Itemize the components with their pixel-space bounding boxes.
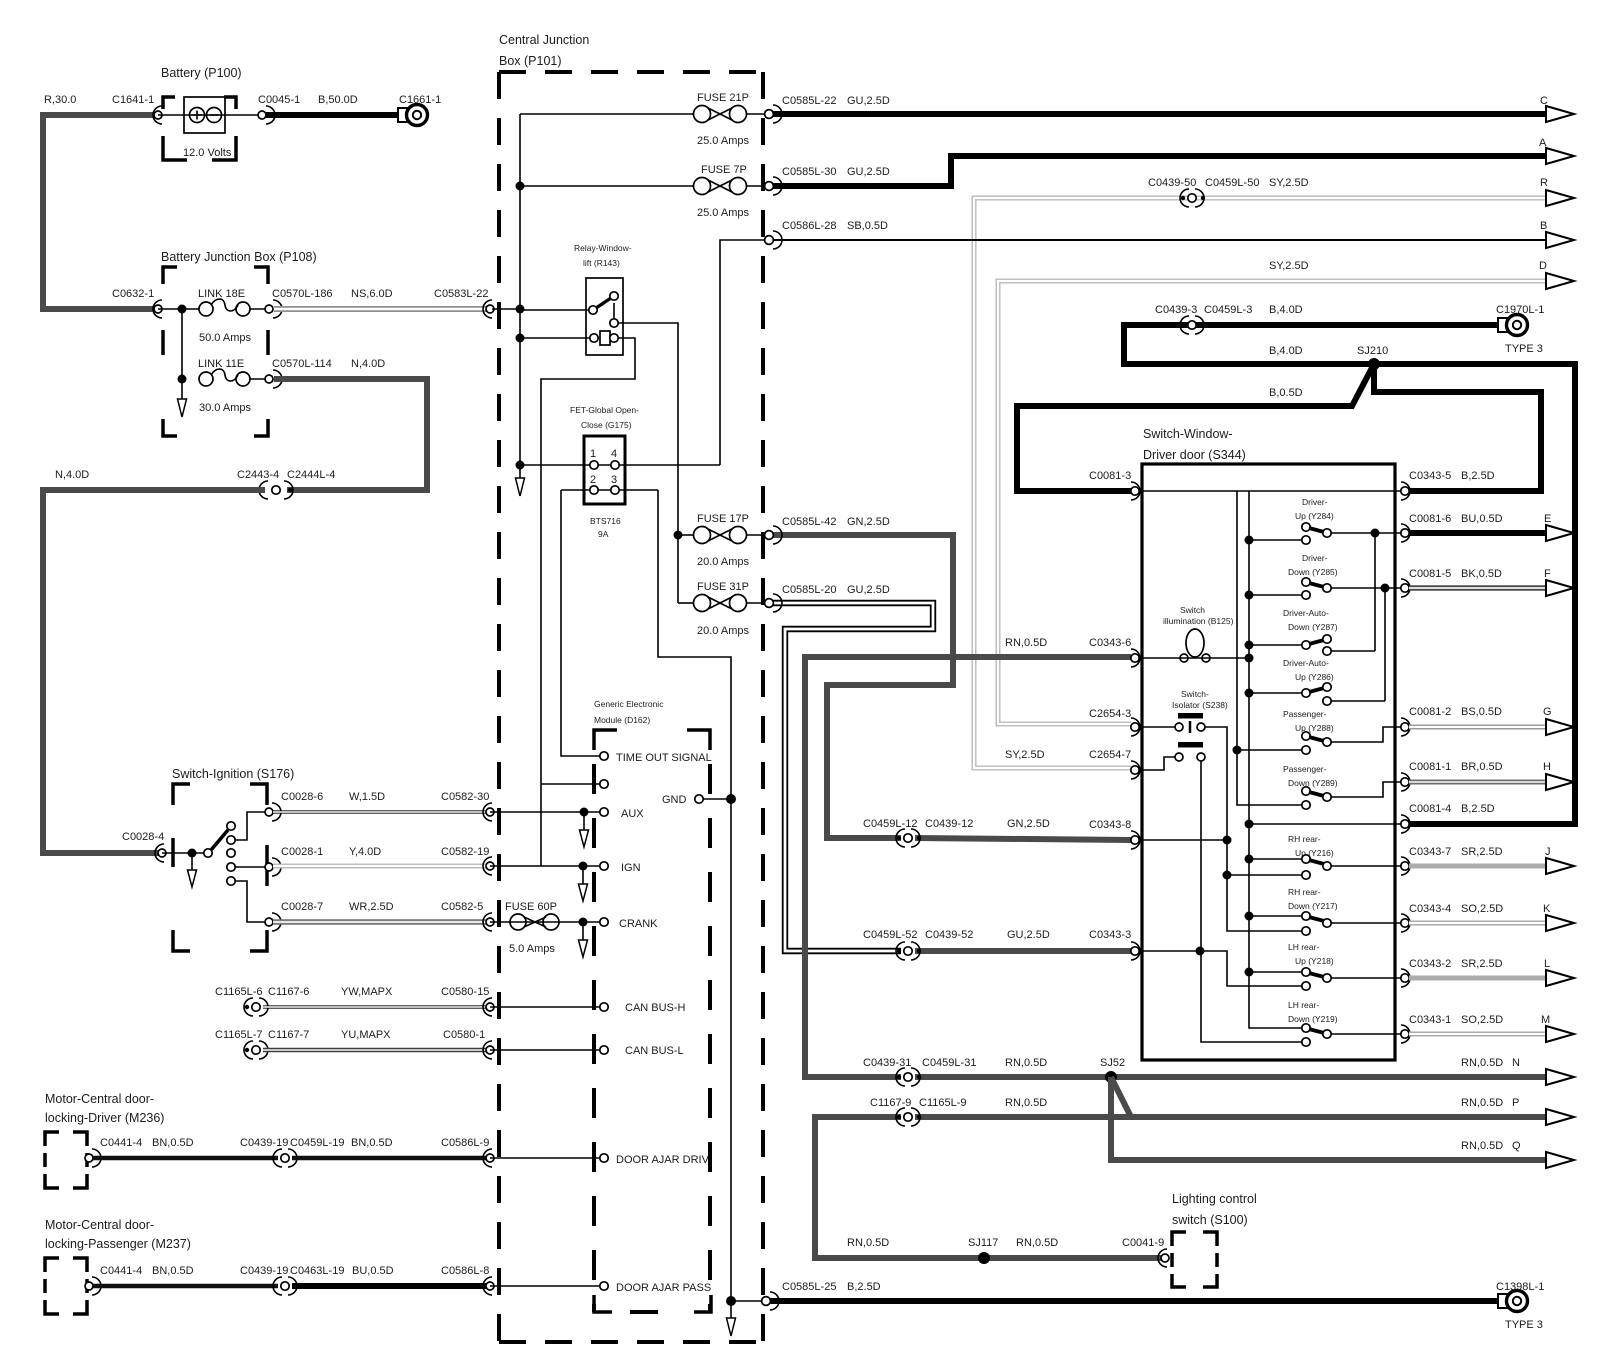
svg-text:C2654-3: C2654-3 — [1089, 708, 1131, 720]
CJB dashed border top — [499, 70, 763, 74]
svg-text:C0580-15: C0580-15 — [441, 986, 489, 998]
svg-text:BK,0.5D: BK,0.5D — [1461, 568, 1502, 580]
wire GN,2.5D fuse17P route — [770, 535, 953, 838]
wire inner bus mid — [1237, 491, 1302, 805]
wire Y216 output — [1331, 865, 1405, 867]
wire switch feed — [162, 852, 208, 854]
wire to fuse 31P — [678, 602, 693, 604]
node Y217 upper feed — [1245, 912, 1254, 921]
svg-text:M: M — [1541, 1014, 1550, 1026]
svg-text:Battery (P100): Battery (P100) — [161, 66, 242, 80]
wire relay output to fuses — [618, 323, 678, 603]
svg-text:C0459L-3: C0459L-3 — [1204, 304, 1252, 316]
connector C0081-4 — [1401, 815, 1410, 833]
svg-text:C0459L-31: C0459L-31 — [922, 1057, 976, 1069]
wire B SB,0.5D — [769, 239, 1545, 241]
svg-text:C0081-4: C0081-4 — [1409, 803, 1451, 815]
svg-text:C0586L-9: C0586L-9 — [441, 1137, 489, 1149]
svg-text:RN,0.5D: RN,0.5D — [847, 1237, 889, 1249]
svg-text:4: 4 — [611, 448, 617, 460]
FET G175 box — [584, 436, 625, 504]
svg-text:RN,0.5D: RN,0.5D — [1005, 1097, 1047, 1109]
connector C0441-4 — [92, 1149, 101, 1167]
svg-text:C2444L-4: C2444L-4 — [287, 469, 335, 481]
wire B,2.5D bottom — [770, 1298, 1499, 1304]
svg-text:Switch: Switch — [1180, 605, 1205, 615]
wire FET pin3 to GND rail — [658, 490, 731, 799]
svg-text:C0439-19: C0439-19 — [240, 1265, 288, 1277]
connector C0439-19 C0459L-19 — [273, 1149, 297, 1167]
FET pin 1 — [590, 461, 598, 469]
svg-text:Passenger-: Passenger- — [1283, 709, 1327, 719]
connector C2654-7 — [1131, 761, 1140, 779]
node bus NS input — [516, 305, 525, 314]
ring terminal C1398L-1 — [1498, 1294, 1507, 1308]
wire Y216 upper feed — [1249, 858, 1302, 860]
node bus relay coil — [516, 334, 525, 343]
connector C0028-1 — [272, 858, 281, 876]
svg-text:SY,2.5D: SY,2.5D — [1005, 749, 1045, 761]
pin CAN BUS-H — [600, 1003, 608, 1011]
wire R,30.0 battery to BJB — [43, 115, 160, 309]
svg-text:GU,2.5D: GU,2.5D — [847, 95, 890, 107]
wire P RN,0.5D — [1111, 1077, 1545, 1117]
svg-text:N,4.0D: N,4.0D — [55, 469, 89, 481]
svg-text:TYPE 3: TYPE 3 — [1505, 1319, 1543, 1331]
node Y287 feed — [1245, 641, 1254, 650]
arrow C — [1546, 106, 1574, 122]
svg-text:D: D — [1539, 260, 1547, 272]
wire Y284 feed — [1249, 539, 1302, 541]
svg-text:RN,0.5D: RN,0.5D — [1005, 637, 1047, 649]
svg-text:Driver-: Driver- — [1302, 553, 1328, 563]
svg-text:C0028-1: C0028-1 — [281, 846, 323, 858]
svg-text:Up (Y288): Up (Y288) — [1295, 723, 1334, 733]
node bus fuse7P — [516, 182, 525, 191]
wire FET pin2 to TIME OUT SIGNAL — [561, 490, 600, 756]
wire FET pins 2-3 row — [561, 489, 658, 491]
wire H BR,0.5D — [1409, 780, 1545, 785]
wire door ajar pass into module — [490, 1285, 600, 1287]
svg-text:switch (S100): switch (S100) — [1172, 1213, 1248, 1227]
svg-text:YW,MAPX: YW,MAPX — [341, 986, 393, 998]
svg-text:C0081-2: C0081-2 — [1409, 706, 1451, 718]
connector C0045-1 — [266, 106, 275, 124]
svg-text:C0343-7: C0343-7 — [1409, 846, 1451, 858]
svg-text:Isolator (S238): Isolator (S238) — [1172, 700, 1228, 710]
connector C2443-4 C2444L-4 — [259, 481, 293, 499]
svg-text:P: P — [1512, 1097, 1519, 1109]
arrow L — [1546, 970, 1574, 986]
svg-text:Driver-Auto-: Driver-Auto- — [1283, 608, 1329, 618]
svg-text:C2654-7: C2654-7 — [1089, 749, 1131, 761]
wire Y,4.0D — [273, 864, 488, 869]
svg-text:C0583L-22: C0583L-22 — [434, 288, 488, 300]
connector C0582-5 — [483, 913, 492, 931]
svg-text:C0586L-28: C0586L-28 — [782, 220, 836, 232]
svg-text:C0439-50: C0439-50 — [1148, 177, 1196, 189]
svg-text:F: F — [1544, 568, 1551, 580]
svg-text:Battery Junction Box (P108): Battery Junction Box (P108) — [161, 250, 317, 264]
svg-text:N: N — [1512, 1057, 1520, 1069]
svg-text:H: H — [1543, 761, 1551, 773]
to-other-circuits arrow CRANK — [582, 922, 584, 940]
connector C1165L-6 C1167-6 — [245, 1005, 249, 1009]
svg-text:TYPE 3: TYPE 3 — [1505, 343, 1543, 355]
wire to fuse 60P — [490, 921, 600, 923]
connector C0441-4 M237 — [92, 1277, 101, 1295]
svg-text:R: R — [1540, 177, 1548, 189]
node fuse17P tap — [674, 531, 683, 540]
svg-text:20.0 Amps: 20.0 Amps — [697, 556, 749, 568]
svg-text:Driver-Auto-: Driver-Auto- — [1283, 658, 1329, 668]
svg-text:BN,0.5D: BN,0.5D — [152, 1137, 194, 1149]
svg-text:FUSE 21P: FUSE 21P — [697, 92, 749, 104]
motor M236 box — [45, 1132, 87, 1188]
wire GU,2.5D fuse31P route — [770, 603, 933, 951]
svg-text:FUSE 60P: FUSE 60P — [505, 901, 557, 913]
connector C0580-15 — [483, 998, 492, 1016]
connector C0583L-22 — [483, 300, 492, 318]
svg-text:W,1.5D: W,1.5D — [349, 791, 385, 803]
wire A GU,2.5D — [769, 156, 1545, 186]
wire RH rear up lower feed — [1227, 874, 1302, 876]
svg-text:C0028-7: C0028-7 — [281, 901, 323, 913]
fuse FUSE 17P — [694, 527, 711, 544]
connector C0343-2 — [1401, 969, 1410, 987]
svg-text:C1398L-1: C1398L-1 — [1496, 1281, 1544, 1293]
svg-text:Motor-Central door-: Motor-Central door- — [45, 1092, 154, 1106]
wire GND rail down — [730, 799, 732, 1301]
svg-text:C0343-4: C0343-4 — [1409, 903, 1451, 915]
node link 11E junction — [178, 375, 187, 384]
wire C0081-4 internal — [1249, 823, 1405, 825]
connector C0028-7 — [272, 913, 281, 931]
svg-text:B,0.5D: B,0.5D — [1269, 387, 1303, 399]
wire Y217 upper feed — [1249, 915, 1302, 917]
svg-text:C0439-52: C0439-52 — [925, 929, 973, 941]
wire CJB feed bus — [519, 114, 521, 478]
wire bus to fuse 7P — [520, 185, 693, 187]
connector C0343-3 — [1131, 942, 1140, 960]
wire WR,2.5D — [273, 919, 488, 924]
wire Y285 feed — [1249, 594, 1302, 596]
wire Y218 lower feed — [1200, 951, 1302, 986]
connector C0582-19 — [483, 857, 492, 875]
svg-text:C0045-1: C0045-1 — [258, 94, 300, 106]
svg-text:C1167-9: C1167-9 — [870, 1097, 911, 1109]
svg-text:SY,2.5D: SY,2.5D — [1269, 177, 1309, 189]
connector C0459L-12 C0439-12 — [897, 836, 901, 840]
svg-text:C0041-9: C0041-9 — [1122, 1237, 1164, 1249]
svg-text:C1167-6: C1167-6 — [268, 986, 309, 998]
svg-text:C0585L-42: C0585L-42 — [782, 516, 836, 528]
wire unnamed pin to IGN net — [541, 783, 600, 785]
svg-text:C0028-4: C0028-4 — [122, 831, 164, 843]
connector C0439-19 C0463L-19 — [273, 1277, 297, 1295]
wire BN,0.5D M237 — [93, 1284, 278, 1289]
svg-text:SJ117: SJ117 — [968, 1237, 998, 1249]
svg-text:Motor-Central door-: Motor-Central door- — [45, 1218, 154, 1232]
wire L SR,2.5D — [1409, 976, 1545, 981]
wire to C0570L-186 — [250, 308, 269, 310]
wire SJ210 branch to C0343-5 — [1374, 364, 1541, 491]
svg-text:NS,6.0D: NS,6.0D — [351, 288, 393, 300]
wire Y284 output — [1331, 532, 1405, 534]
arrow E — [1546, 525, 1574, 541]
svg-text:G: G — [1543, 706, 1552, 718]
lighting switch S100 box — [1172, 1232, 1217, 1287]
connector C0343-5 — [1401, 482, 1410, 500]
svg-text:C0570L-114: C0570L-114 — [272, 358, 332, 370]
node GND rail bottom — [726, 1296, 736, 1306]
svg-text:C2443-4: C2443-4 — [237, 469, 279, 481]
node junction at link 18E — [178, 305, 187, 314]
connector C0570L-186 — [273, 300, 282, 318]
svg-text:C0028-6: C0028-6 — [281, 791, 323, 803]
wire B,0.5D SJ210 diagonal — [1017, 364, 1374, 491]
svg-text:RN,0.5D: RN,0.5D — [1016, 1237, 1058, 1249]
node GND rail — [726, 794, 736, 804]
wire Y288 output — [1331, 727, 1405, 742]
svg-text:C0081-1: C0081-1 — [1409, 761, 1451, 773]
connector C0343-7 — [1401, 857, 1410, 875]
connector C0585L-20 — [773, 594, 782, 612]
arrow K — [1546, 915, 1574, 931]
svg-text:WR,2.5D: WR,2.5D — [349, 901, 394, 913]
wire Y287 output — [1331, 650, 1375, 652]
D162 dashed border bottom — [594, 1295, 711, 1312]
connector C0028-4 — [155, 844, 164, 862]
to-other-circuits arrow AUX — [583, 812, 585, 830]
svg-text:C0459L-19: C0459L-19 — [290, 1137, 344, 1149]
fusible link LINK 18E — [199, 302, 213, 316]
to-other-circuits arrow bottom rail — [730, 1301, 732, 1318]
connector C2654-3 — [1131, 718, 1140, 736]
svg-text:C0585L-25: C0585L-25 — [782, 1281, 836, 1293]
arrow M — [1546, 1026, 1574, 1042]
svg-text:E: E — [1544, 513, 1551, 525]
arrow Q — [1546, 1152, 1574, 1168]
wire rail to C0585L-25 — [731, 1300, 762, 1302]
svg-text:B,4.0D: B,4.0D — [1269, 345, 1303, 357]
svg-text:12.0 Volts: 12.0 Volts — [183, 147, 232, 159]
svg-text:CAN BUS-H: CAN BUS-H — [625, 1002, 686, 1014]
connector C0439-3 C0459L-3 — [1181, 323, 1185, 327]
svg-text:LH rear-: LH rear- — [1288, 942, 1319, 952]
svg-text:Y,4.0D: Y,4.0D — [349, 846, 381, 858]
pin CAN BUS-L — [600, 1046, 608, 1054]
pin IGN — [600, 862, 608, 870]
wire RN,0.5D to lighting switch — [977, 1255, 1163, 1261]
svg-text:DOOR AJAR DRIV: DOOR AJAR DRIV — [616, 1154, 710, 1166]
node SJ117 — [978, 1252, 990, 1264]
wire contact to C0028-7 — [235, 881, 268, 922]
svg-text:25.0 Amps: 25.0 Amps — [697, 207, 749, 219]
wire to fuse 17P — [678, 534, 693, 536]
node B125 to bus — [1245, 654, 1254, 663]
svg-text:Generic Electronic: Generic Electronic — [594, 699, 664, 709]
arrow A — [1546, 148, 1574, 164]
wire K SO,2.5D — [1409, 921, 1545, 926]
connector C0081-2 — [1401, 718, 1410, 736]
node Y216 upper feed — [1245, 855, 1254, 864]
wire W,1.5D — [273, 810, 488, 813]
pin GND — [695, 795, 703, 803]
svg-text:DOOR AJAR PASS: DOOR AJAR PASS — [616, 1282, 711, 1294]
svg-text:C0081-6: C0081-6 — [1409, 513, 1451, 525]
svg-text:AUX: AUX — [621, 808, 644, 820]
wire bus to fuse 21P — [520, 113, 693, 115]
node bus FET pin1 — [516, 461, 525, 470]
svg-text:CAN BUS-L: CAN BUS-L — [625, 1045, 684, 1057]
connector C1167-9 C1165L-9 — [897, 1115, 901, 1119]
relay coil — [600, 331, 610, 345]
arrow R — [1546, 190, 1574, 206]
relay pin output — [610, 319, 618, 327]
connector C0459L-52 C0439-52 — [897, 949, 901, 953]
svg-text:C0582-5: C0582-5 — [441, 901, 483, 913]
svg-text:C1165L-6: C1165L-6 — [215, 986, 263, 998]
pin TIME OUT SIGNAL — [600, 752, 608, 760]
wire B,4.0D main — [1124, 325, 1575, 824]
svg-text:FUSE 17P: FUSE 17P — [697, 513, 749, 525]
svg-text:C1661-1: C1661-1 — [399, 94, 441, 106]
svg-text:GU,2.5D: GU,2.5D — [1007, 929, 1050, 941]
wire battery internal — [158, 114, 262, 116]
svg-text:SJ210: SJ210 — [1357, 345, 1388, 357]
battery P100 symbol — [184, 97, 225, 133]
svg-text:FUSE 31P: FUSE 31P — [697, 581, 749, 593]
wire B,50.0D — [266, 112, 398, 118]
svg-text:C1970L-1: C1970L-1 — [1496, 304, 1544, 316]
connector C0343-8 — [1131, 831, 1140, 849]
wire door ajar driv into module — [490, 1157, 600, 1159]
fuse FUSE 7P — [694, 178, 711, 195]
wire Y217 output — [1331, 922, 1405, 924]
wire Y287 output riser — [1374, 533, 1376, 651]
wire GU,2.5D to C0343-3 — [915, 948, 1131, 954]
wire Y286 output — [1331, 700, 1385, 702]
svg-text:GN,2.5D: GN,2.5D — [847, 516, 890, 528]
svg-text:Up (Y216): Up (Y216) — [1295, 848, 1334, 858]
wire C0343-8 row — [1135, 839, 1227, 841]
connector C0632-1 — [153, 300, 162, 318]
svg-text:SY,2.5D: SY,2.5D — [1269, 260, 1309, 272]
svg-text:L: L — [1544, 958, 1550, 970]
connector C0343-4 — [1401, 914, 1410, 932]
svg-text:Close (G175): Close (G175) — [581, 420, 632, 430]
wire D SY,2.5D — [998, 281, 1545, 724]
D162 top corner brackets — [594, 730, 710, 750]
svg-text:C: C — [1540, 95, 1548, 107]
svg-text:RN,0.5D: RN,0.5D — [1461, 1097, 1503, 1109]
svg-text:C0343-6: C0343-6 — [1089, 637, 1131, 649]
svg-text:K: K — [1543, 903, 1551, 915]
svg-text:Switch-Ignition (S176): Switch-Ignition (S176) — [172, 767, 294, 781]
svg-text:C0439-3: C0439-3 — [1155, 304, 1197, 316]
svg-text:C0632-1: C0632-1 — [112, 288, 154, 300]
wire relay coil return — [541, 338, 635, 866]
connector C0570L-114 — [273, 370, 282, 388]
wire contact to C0028-1 — [235, 866, 268, 868]
svg-text:C0081-5: C0081-5 — [1409, 568, 1451, 580]
svg-text:Q: Q — [1512, 1140, 1521, 1152]
wire FET pins 1-4 row — [520, 464, 720, 466]
svg-text:RN,0.5D: RN,0.5D — [1005, 1057, 1047, 1069]
connector C0585L-22 — [773, 105, 782, 123]
node C0343-3 junction — [1196, 947, 1205, 956]
wire Y287 feed — [1249, 644, 1302, 646]
svg-text:C0463L-19: C0463L-19 — [290, 1265, 344, 1277]
connector C0028-6 — [272, 803, 281, 821]
arrow H — [1546, 774, 1574, 790]
svg-text:C0582-19: C0582-19 — [441, 846, 489, 858]
svg-text:A: A — [1539, 137, 1547, 149]
connector C0586L-8 — [483, 1277, 492, 1295]
wire C2654-7 to isolator — [1135, 757, 1175, 770]
FET pin 3 — [611, 486, 619, 494]
wire Y219 output — [1331, 1033, 1405, 1035]
svg-text:Passenger-: Passenger- — [1283, 764, 1327, 774]
svg-text:Down (Y217): Down (Y217) — [1288, 901, 1338, 911]
node CRANK tap — [579, 918, 588, 927]
svg-text:J: J — [1545, 846, 1551, 858]
wire C0343-3 row — [1135, 950, 1200, 952]
svg-text:Switch-: Switch- — [1181, 689, 1209, 699]
svg-text:illumination (B125): illumination (B125) — [1163, 616, 1234, 626]
motor M237 box — [45, 1258, 87, 1314]
svg-text:C1165L-7: C1165L-7 — [215, 1029, 263, 1041]
svg-text:B,2.5D: B,2.5D — [1461, 803, 1495, 815]
node Y288 feed — [1233, 746, 1242, 755]
connector C0580-1 — [483, 1041, 492, 1059]
wire N,4.0D down to C2444L-4 — [274, 379, 427, 490]
arrow G — [1546, 719, 1574, 735]
FET pin 2 — [590, 486, 598, 494]
pin AUX — [600, 808, 608, 816]
wire RN,0.5D illumination — [805, 657, 1131, 1077]
svg-text:C0585L-30: C0585L-30 — [782, 166, 836, 178]
svg-text:20.0 Amps: 20.0 Amps — [697, 625, 749, 637]
wire Q RN,0.5D — [1111, 1077, 1545, 1160]
svg-text:RN,0.5D: RN,0.5D — [1461, 1140, 1503, 1152]
svg-text:BS,0.5D: BS,0.5D — [1461, 706, 1502, 718]
D162 dashed border right — [708, 764, 712, 1312]
svg-text:2: 2 — [590, 474, 596, 486]
pin CRANK — [600, 918, 608, 926]
node SJ52 — [1105, 1071, 1117, 1083]
node Y285 feed — [1245, 591, 1254, 600]
connector C0081-1 — [1401, 773, 1410, 791]
svg-text:30.0 Amps: 30.0 Amps — [199, 402, 251, 414]
svg-text:BN,0.5D: BN,0.5D — [152, 1265, 194, 1277]
relay R143 box — [586, 278, 623, 355]
connector C0081-5 — [1401, 579, 1410, 597]
wire YU,MAPX — [263, 1048, 488, 1053]
node RH rear up lower feed — [1223, 871, 1232, 880]
arrow B — [1546, 232, 1574, 248]
node ignition feed — [188, 849, 197, 858]
ring terminal C1970L-1 — [1498, 318, 1507, 332]
arrow J — [1546, 858, 1574, 874]
svg-text:3: 3 — [611, 474, 617, 486]
fuse FUSE 31P — [694, 595, 711, 612]
connector C0585L-30 — [773, 177, 782, 195]
svg-text:TIME OUT SIGNAL: TIME OUT SIGNAL — [616, 752, 712, 764]
svg-text:Down (Y219): Down (Y219) — [1288, 1014, 1338, 1024]
svg-text:Up (Y286): Up (Y286) — [1295, 672, 1334, 682]
